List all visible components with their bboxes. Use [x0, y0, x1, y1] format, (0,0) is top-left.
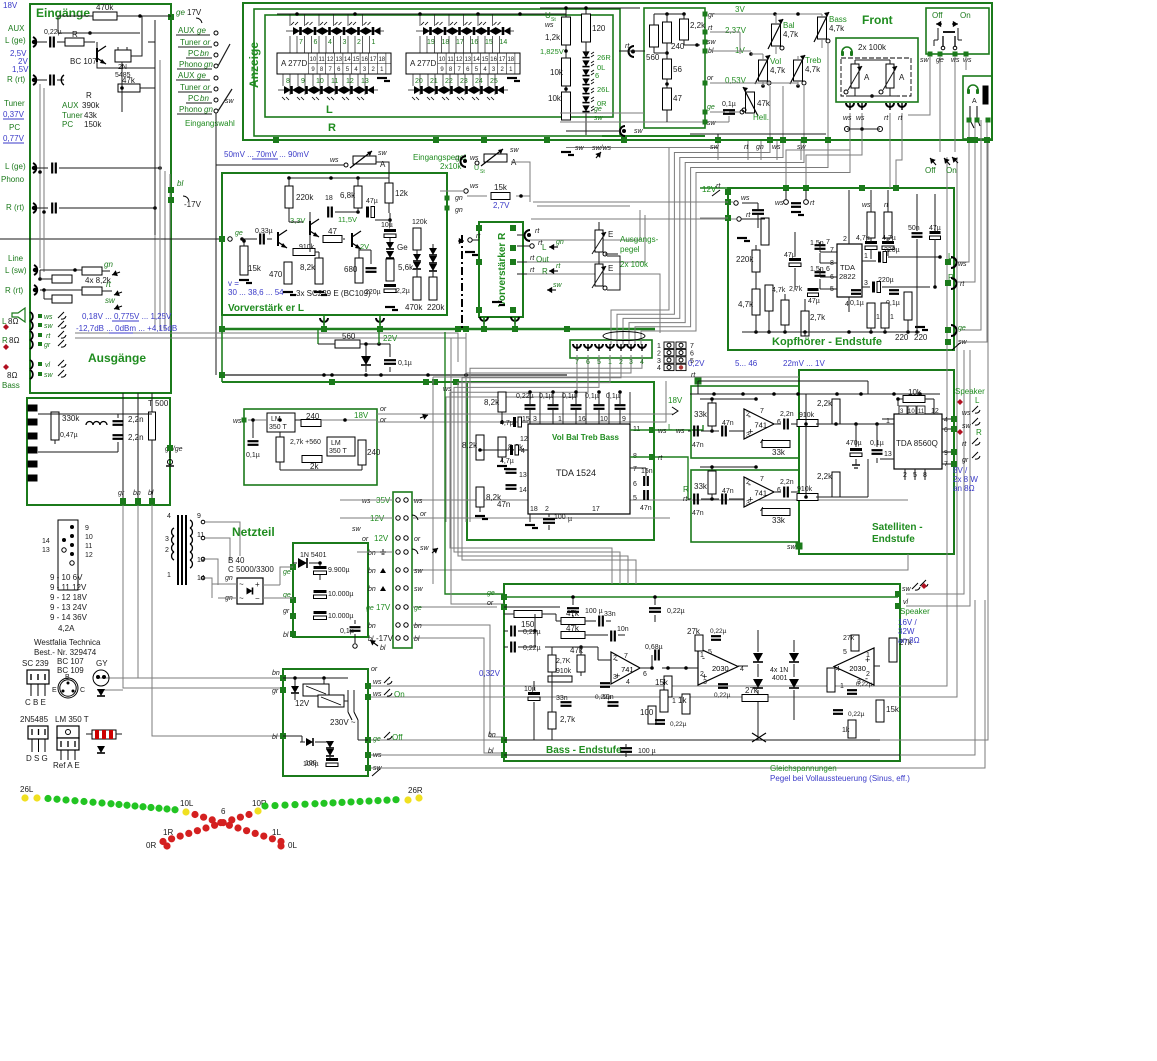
svg-text:18V: 18V — [3, 1, 18, 10]
svg-text:0,22µ: 0,22µ — [710, 628, 727, 635]
svg-text:sw: sw — [594, 115, 604, 122]
resistor 910k — [293, 249, 315, 256]
svg-text:12: 12 — [85, 552, 93, 559]
resistor 560 — [650, 25, 659, 47]
wire: netzteil box internals — [263, 584, 280, 586]
svg-text:17: 17 — [592, 506, 600, 513]
svg-text:470k: 470k — [405, 303, 423, 312]
wire: horizontal bus middle y333-338 — [75, 333, 458, 362]
svg-text:3: 3 — [533, 416, 537, 423]
IC LM350T no2 — [327, 437, 355, 456]
connector Line R jack — [34, 285, 37, 295]
capacitor input L kh — [752, 209, 764, 211]
svg-text:vl: vl — [45, 362, 51, 369]
svg-text:910k: 910k — [299, 244, 315, 251]
svg-text:47µ: 47µ — [784, 252, 796, 259]
svg-text:bn: bn — [368, 586, 376, 593]
svg-text:680: 680 — [344, 265, 358, 274]
LED chain B green dots — [261, 802, 268, 809]
svg-text:47: 47 — [673, 94, 682, 103]
svg-text:On: On — [960, 11, 971, 20]
svg-text:0,33µ: 0,33µ — [255, 228, 273, 235]
LED chain vertical — [582, 51, 589, 57]
svg-text:0,22µ: 0,22µ — [848, 711, 865, 718]
capacitor 1,5n kh a — [815, 244, 826, 246]
svg-text:390k: 390k — [82, 101, 100, 110]
svg-text:15k: 15k — [886, 705, 900, 714]
wire: anzeige lower LED verticals — [282, 74, 284, 86]
svg-text:8,2k: 8,2k — [300, 263, 316, 272]
potentiometer Ausgangspegel R — [595, 264, 603, 286]
wire: satellite rt rail top — [433, 376, 799, 378]
connector block pins right — [70, 525, 74, 529]
connector 7pin ujacks — [573, 344, 581, 348]
resistor 470 — [284, 262, 292, 284]
resistor 1 bass a — [660, 690, 668, 712]
svg-text:gn: gn — [556, 239, 564, 246]
wire: rail to 376 connectors — [221, 315, 223, 382]
svg-text:2: 2 — [357, 39, 361, 46]
svg-text:2: 2 — [165, 547, 169, 554]
svg-text:R: R — [976, 428, 982, 437]
svg-text:15: 15 — [482, 57, 489, 63]
svg-text:Westfalia Technica: Westfalia Technica — [34, 638, 101, 647]
LED chain A yellow 10L — [182, 808, 189, 815]
svg-text:11: 11 — [197, 532, 204, 539]
svg-text:A 277D: A 277D — [410, 59, 436, 68]
svg-text:ws: ws — [772, 144, 781, 151]
svg-text:3: 3 — [657, 358, 661, 365]
capacitor 0,1u kh a — [851, 289, 861, 291]
IC LM350T no1 — [267, 413, 295, 432]
svg-text:0,1µ: 0,1µ — [246, 452, 260, 459]
connector ujacks under headphone box — [846, 103, 854, 107]
svg-text:-17V: -17V — [376, 634, 394, 643]
svg-text:sw: sw — [420, 545, 430, 552]
connector sw jack below — [620, 126, 625, 136]
diode symbol bottom — [97, 746, 105, 753]
svg-text:R (rt): R (rt) — [5, 286, 24, 295]
capacitor 2,2n sat b — [783, 487, 785, 498]
capacitor 10000u b — [314, 611, 327, 614]
svg-text:33k: 33k — [694, 410, 708, 419]
capacitor 0,1u lm — [248, 440, 259, 442]
svg-text:2,7V: 2,7V — [493, 201, 510, 210]
capacitor 0,22u mid — [600, 682, 610, 684]
svg-text:ge: ge — [707, 104, 715, 111]
svg-text:6: 6 — [777, 487, 781, 494]
svg-text:2,2n: 2,2n — [780, 479, 794, 486]
diode relay b — [306, 738, 313, 746]
svg-text:Vorverstärker R: Vorverstärker R — [497, 232, 508, 307]
svg-text:15k: 15k — [494, 183, 508, 192]
svg-text:2: 2 — [613, 655, 617, 662]
svg-text:bn: bn — [368, 568, 376, 575]
svg-text:4: 4 — [167, 513, 171, 520]
svg-text:4: 4 — [845, 301, 849, 308]
svg-text:1: 1 — [890, 314, 894, 321]
svg-text:gr: gr — [283, 608, 290, 615]
node rail taps under pots — [715, 137, 721, 143]
svg-text:14: 14 — [344, 57, 351, 63]
capacitor 100u bass top — [567, 607, 579, 609]
resistor 8,2k no1 — [498, 392, 506, 412]
svg-text:14: 14 — [473, 57, 480, 63]
capacitor 10000u a — [314, 590, 327, 593]
node sw ge ws ws under switch — [928, 52, 933, 57]
capacitor 10u — [384, 229, 396, 232]
svg-text:1: 1 — [866, 652, 870, 659]
svg-text:17V: 17V — [187, 8, 202, 17]
svg-text:0,1µ: 0,1µ — [606, 393, 620, 400]
resistor 15k bass — [664, 676, 672, 697]
svg-text:R: R — [72, 30, 78, 39]
svg-text:741: 741 — [755, 489, 768, 498]
transformer secondary winding — [190, 520, 192, 528]
svg-text:Out: Out — [536, 255, 550, 264]
switch mains contacts — [347, 690, 349, 712]
svg-text:T 500: T 500 — [148, 399, 169, 408]
svg-text:PC: PC — [188, 49, 199, 58]
svg-text:bl: bl — [488, 748, 494, 755]
node rail tap at eingange side — [273, 137, 279, 143]
wire: pot section bus — [654, 13, 684, 15]
wire: power strip outputs right horizontals — [412, 499, 908, 501]
svg-text:ws: ws — [958, 261, 967, 268]
svg-text:6: 6 — [633, 481, 637, 488]
svg-text:9 - 13 24V: 9 - 13 24V — [50, 603, 88, 612]
capacitor 220u — [366, 267, 377, 269]
svg-text:2,2n: 2,2n — [128, 433, 144, 442]
wire: gr wire T500 to relay box — [123, 505, 283, 688]
svg-text:1N 5401: 1N 5401 — [300, 552, 327, 559]
capacitor 47u vvl — [366, 207, 369, 218]
ground netzteil cap — [354, 640, 356, 643]
svg-text:1,2k: 1,2k — [545, 33, 561, 42]
wire: inner vertical bus Eingaenge — [154, 20, 156, 235]
svg-text:4: 4 — [626, 679, 630, 686]
svg-text:Pegel bei Vollaussteuerung (Si: Pegel bei Vollaussteuerung (Sinus, eff.) — [770, 774, 910, 783]
wire: On/Off wires to relay box — [368, 157, 947, 686]
node vvr pins — [476, 225, 482, 231]
svg-text:Front: Front — [862, 13, 893, 27]
svg-text:0R: 0R — [146, 841, 156, 850]
resistor 8,2k no3 — [476, 435, 484, 460]
wire frame: relay box — [283, 669, 368, 776]
svg-text:10: 10 — [600, 416, 608, 423]
connector L8 terminals — [30, 312, 33, 321]
wire: t500 internals — [33, 411, 55, 413]
svg-text:8,2k: 8,2k — [484, 398, 500, 407]
svg-text:1: 1 — [864, 253, 868, 260]
svg-text:0,1µ: 0,1µ — [539, 393, 553, 400]
svg-text:13: 13 — [519, 472, 527, 479]
svg-text:10µ: 10µ — [381, 222, 393, 229]
svg-text:3: 3 — [343, 39, 347, 46]
svg-text:ge: ge — [366, 605, 374, 612]
svg-text:LM 350 T: LM 350 T — [55, 715, 89, 724]
resistor 10k lower — [562, 92, 571, 120]
capacitor 0,22u in b — [510, 642, 512, 653]
svg-text:47k: 47k — [122, 76, 136, 85]
svg-text:sw: sw — [707, 39, 717, 46]
node ws pin11 out — [649, 427, 655, 433]
resistor 6,8k — [354, 186, 362, 208]
svg-text:741: 741 — [755, 421, 768, 430]
resistor 47k bass c — [577, 655, 585, 672]
svg-text:0,47µ: 0,47µ — [60, 432, 78, 439]
svg-text:100: 100 — [640, 708, 654, 717]
capacitor 0,22u a — [711, 635, 721, 637]
LED row lower right diodes — [414, 86, 421, 94]
svg-text:ws: ws — [233, 418, 242, 425]
resistor 27k bass right — [889, 638, 897, 662]
svg-text:470k: 470k — [96, 3, 114, 12]
resistor 27k bass b — [851, 635, 859, 651]
svg-text:8Ω: 8Ω — [9, 336, 19, 345]
diode clamp a — [413, 254, 421, 261]
wire: kh bottom bus — [742, 331, 920, 333]
resistor 910k sat a — [797, 420, 818, 427]
diode D1 1N4001 — [753, 653, 763, 662]
svg-text:18: 18 — [530, 506, 538, 513]
relay contact box — [318, 695, 344, 707]
wire: upper LED row chain lines — [286, 30, 384, 32]
resistor 8,2k no4 — [476, 487, 484, 507]
svg-text:6: 6 — [314, 39, 318, 46]
resistor 220k kh — [752, 250, 760, 272]
svg-text:ws: ws — [843, 115, 852, 122]
svg-text:sw: sw — [920, 57, 930, 64]
IC 2030 no1 — [698, 648, 738, 685]
wire: vertical bundle below Eingaenge box to T500 — [122, 393, 124, 500]
svg-text:ge: ge — [197, 26, 206, 35]
svg-text:100: 100 — [554, 514, 566, 521]
svg-text:8V /: 8V / — [953, 466, 968, 475]
svg-text:R (rt): R (rt) — [6, 203, 25, 212]
node sw row2 — [703, 120, 708, 125]
svg-text:ws: ws — [44, 314, 53, 321]
svg-text:2822: 2822 — [839, 272, 856, 281]
svg-text:10k: 10k — [550, 68, 564, 77]
capacitor 10n bass a — [610, 631, 612, 642]
ground vvr — [492, 301, 502, 303]
svg-text:4,7k: 4,7k — [738, 300, 754, 309]
svg-text:sw: sw — [414, 568, 424, 575]
svg-text:sw: sw — [634, 128, 644, 135]
wire: ausgangspegel wiring — [598, 222, 600, 230]
svg-text:27k: 27k — [687, 627, 701, 636]
svg-text:9: 9 — [944, 450, 948, 457]
resistor 33k sat a — [708, 403, 716, 426]
diode pair caps relay — [326, 741, 334, 748]
svg-text:ws: ws — [362, 498, 371, 505]
svg-text:2N5485: 2N5485 — [20, 715, 49, 724]
wire: Eingaenge to Vorverstaerker horizontals — [0, 238, 222, 240]
svg-text:0,32V: 0,32V — [479, 669, 501, 678]
svg-text:330k: 330k — [62, 414, 80, 423]
svg-text:0,22µ: 0,22µ — [856, 681, 873, 688]
svg-text:v =: v = — [228, 279, 239, 288]
svg-text:350 T: 350 T — [269, 424, 287, 431]
svg-text:32W: 32W — [898, 627, 915, 636]
wire frame: Satelliten-Endstufe box — [799, 370, 954, 554]
svg-text:0,22µ: 0,22µ — [595, 694, 612, 701]
svg-text:or: or — [487, 600, 494, 607]
svg-text:220µ: 220µ — [878, 277, 894, 284]
resistor 12k — [385, 183, 393, 203]
svg-text:4,7k: 4,7k — [770, 66, 786, 75]
svg-text:ws: ws — [470, 155, 479, 162]
wire frame: headphone pot 2x100k box — [836, 38, 918, 102]
svg-text:6: 6 — [595, 71, 599, 80]
svg-text:47µ: 47µ — [366, 198, 378, 205]
svg-text:16: 16 — [361, 57, 368, 63]
wire: relay internals — [283, 677, 348, 679]
svg-text:33k: 33k — [694, 482, 708, 491]
svg-text:or: or — [420, 511, 427, 518]
resistor 680 — [355, 258, 363, 283]
svg-text:0L: 0L — [288, 841, 297, 850]
svg-text:18: 18 — [507, 57, 514, 63]
svg-text:0,53V: 0,53V — [725, 76, 747, 85]
svg-text:R (rt): R (rt) — [7, 75, 26, 84]
svg-text:0,1µ: 0,1µ — [722, 101, 736, 108]
resistor 470k — [413, 277, 421, 300]
svg-text:ws: ws — [962, 410, 971, 417]
svg-text:7: 7 — [299, 39, 303, 46]
svg-text:12: 12 — [931, 408, 939, 415]
resistor 330k — [51, 412, 59, 440]
wire: line out wiring — [40, 269, 82, 271]
svg-text:240: 240 — [367, 448, 381, 457]
svg-text:2: 2 — [700, 671, 704, 678]
svg-text:4: 4 — [836, 666, 840, 673]
svg-text:9: 9 — [301, 78, 305, 85]
capacitor 220u L out — [878, 252, 881, 263]
wire frame: Anzeige resistor sub-box — [644, 8, 705, 128]
svg-text:Bal: Bal — [783, 21, 795, 30]
resistor 1,2k — [562, 17, 571, 45]
wire frame: Front power switch box — [926, 8, 989, 54]
svg-text:sw: sw — [707, 120, 717, 127]
svg-text:11,5V: 11,5V — [338, 215, 357, 224]
svg-text:sw/ws: sw/ws — [592, 145, 612, 152]
wire frame: Bass-Endstufe box — [504, 584, 900, 761]
transistor 2N5485 FET — [115, 50, 131, 62]
svg-text:12V: 12V — [374, 534, 389, 543]
connector rt out vvr a — [525, 230, 531, 241]
svg-text:Speaker: Speaker — [900, 607, 930, 616]
svg-text:1: 1 — [840, 683, 844, 690]
wire: switch wires down — [908, 56, 930, 115]
LED row upper left diodes — [293, 27, 300, 35]
svg-text:or: or — [203, 83, 210, 92]
svg-text:Hell.: Hell. — [753, 113, 769, 122]
svg-text:47µ: 47µ — [808, 298, 820, 305]
wire: anzeige right column wiring — [565, 8, 567, 17]
svg-text:2030: 2030 — [849, 664, 866, 673]
wire: bass crossing x — [752, 733, 766, 742]
ground t500 — [169, 451, 171, 458]
capacitor 47n sat in a — [693, 426, 695, 437]
svg-text:22: 22 — [445, 78, 453, 85]
svg-text:4,7k: 4,7k — [829, 24, 845, 33]
svg-text:27k: 27k — [745, 686, 759, 695]
inductor filter coil — [86, 422, 93, 426]
wire: satellite bottom input wiring — [688, 498, 691, 500]
capacitor 0,1u Hell — [723, 109, 735, 111]
svg-text:4: 4 — [944, 417, 948, 424]
transistor Q2 vvl — [309, 221, 311, 235]
node gn a — [445, 196, 450, 201]
resistor 2,2k sat b — [832, 472, 840, 497]
svg-text:sw: sw — [958, 339, 968, 346]
svg-text:5: 5 — [597, 359, 601, 366]
TDA8560Q top pins — [899, 406, 907, 414]
ground IC1 — [377, 77, 387, 79]
svg-text:A 277D: A 277D — [281, 59, 307, 68]
svg-text:AUX: AUX — [178, 71, 195, 80]
svg-text:ws: ws — [545, 22, 554, 29]
wire frame: output connector strip green box — [570, 340, 652, 358]
resistor 2,7k kh a — [781, 300, 789, 325]
svg-text:1,5V: 1,5V — [12, 65, 29, 74]
svg-text:6: 6 — [826, 266, 830, 273]
svg-text:3: 3 — [703, 679, 707, 686]
potentiometer Eingangspegel R — [484, 154, 507, 162]
connector Phono R jack — [33, 203, 36, 213]
svg-text:rt: rt — [106, 280, 112, 289]
capacitor 0,1u kh b — [889, 289, 899, 291]
svg-text:15: 15 — [353, 57, 360, 63]
svg-text:Eingangspegel: Eingangspegel — [413, 153, 466, 162]
svg-text:ws: ws — [470, 183, 479, 190]
svg-text:27k: 27k — [843, 635, 855, 642]
resistor 10k upper — [562, 58, 571, 86]
capacitor phono L — [51, 163, 53, 174]
wire frame: Kopfhoerer-Endstufe box — [728, 188, 954, 350]
svg-text:sw: sw — [378, 150, 388, 157]
svg-text:bn: bn — [488, 732, 496, 739]
svg-text:ge: ge — [487, 590, 495, 597]
svg-text:150k: 150k — [84, 120, 102, 129]
svg-text:0,68µ: 0,68µ — [645, 644, 663, 651]
svg-text:47k: 47k — [566, 624, 580, 633]
node bl 1V — [703, 49, 708, 54]
svg-text:Bass - Endstufe: Bass - Endstufe — [546, 745, 622, 756]
svg-text:15k: 15k — [655, 678, 669, 687]
svg-text:8,2k: 8,2k — [462, 441, 478, 450]
wire rail: second green line segment — [602, 135, 705, 137]
rectifier B40 rect — [237, 578, 263, 604]
resistor 120 — [582, 14, 591, 42]
node rail taps right side — [967, 137, 973, 143]
wire: bn wire T500 to relay box — [138, 505, 283, 678]
capacitor 4,7u kh pair b — [882, 241, 894, 244]
svg-text:6: 6 — [221, 807, 226, 816]
capacitor 47u kh b — [808, 288, 819, 291]
capacitor 0,22u in a — [510, 626, 512, 637]
transistor Q1 vvl — [277, 232, 279, 246]
svg-text:sw: sw — [962, 423, 972, 430]
svg-text:6: 6 — [777, 419, 781, 426]
svg-text:bl: bl — [283, 632, 289, 639]
ground 8,2k no2 — [501, 457, 503, 462]
wire: phono internal — [38, 170, 42, 174]
svg-text:sw: sw — [414, 586, 424, 593]
potentiometer Vol 4,7k — [759, 60, 768, 81]
